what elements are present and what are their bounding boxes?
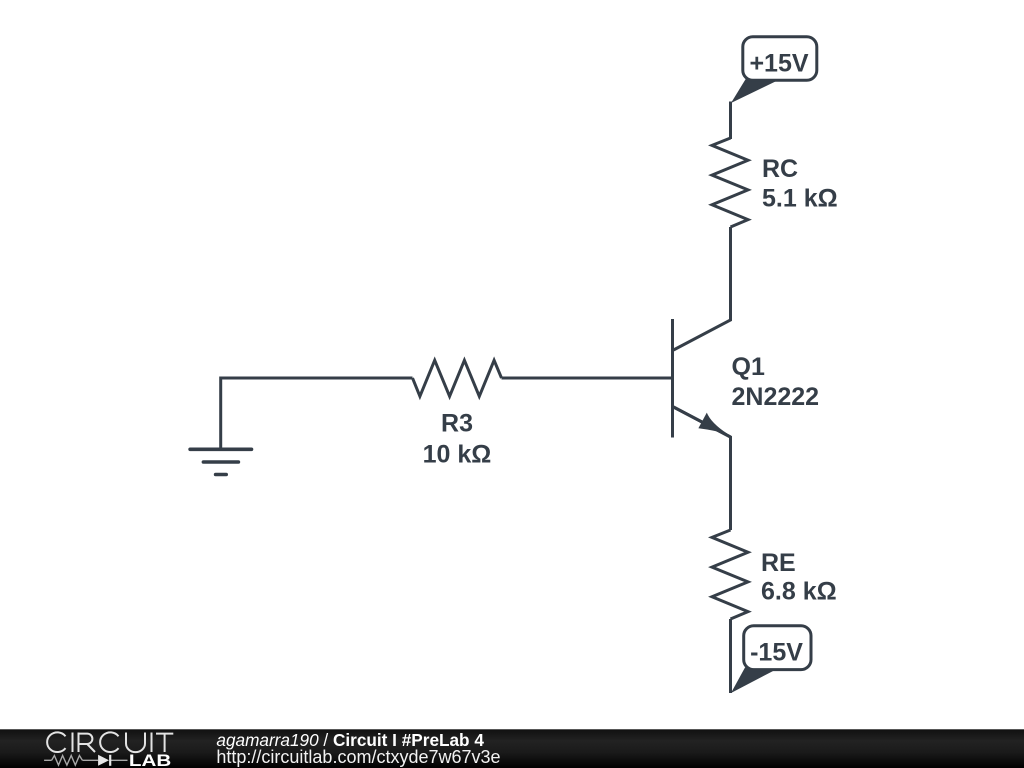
- svg-text:R3: R3: [441, 410, 473, 438]
- label RC 5.1 kohm: [762, 155, 838, 213]
- svg-text:6.8 kΩ: 6.8 kΩ: [761, 578, 837, 606]
- resistor RC: [712, 138, 748, 227]
- wire ground to R3: [221, 378, 413, 449]
- logo mini resistor-diode schematic: [44, 756, 127, 766]
- resistor R3: [413, 360, 502, 396]
- svg-text:Q1: Q1: [732, 353, 765, 381]
- power flag -15V: [731, 626, 811, 693]
- logo diode symbol: [98, 755, 110, 766]
- footer bar: [0, 729, 1024, 768]
- label R3 10 kohm: [423, 410, 492, 469]
- wire from +15V to RC: [729, 102, 732, 140]
- label RE 6.8 kohm: [761, 549, 837, 606]
- svg-text:RC: RC: [762, 155, 798, 183]
- wire R3 to base: [502, 377, 673, 380]
- svg-text:+15V: +15V: [749, 50, 808, 78]
- svg-text:10 kΩ: 10 kΩ: [423, 441, 492, 469]
- power flag +15V: [731, 37, 817, 103]
- svg-text:LAB: LAB: [129, 751, 171, 768]
- label Q1 2N2222: [732, 353, 820, 411]
- resistor RE: [712, 530, 748, 619]
- svg-text:RE: RE: [761, 549, 796, 577]
- ground: [190, 449, 251, 474]
- svg-text:-15V: -15V: [750, 639, 803, 667]
- svg-text:2N2222: 2N2222: [732, 383, 820, 411]
- logo CIRCUIT lettering: [47, 732, 173, 752]
- wire RC to collector: [674, 227, 731, 350]
- svg-text:5.1 kΩ: 5.1 kΩ: [762, 185, 838, 213]
- svg-text:http://circuitlab.com/ctxyde7w: http://circuitlab.com/ctxyde7w67v3e: [216, 747, 500, 767]
- wire RE to -15V: [729, 619, 732, 693]
- wire emitter to RE: [674, 407, 731, 530]
- transistor Q1: [673, 319, 731, 438]
